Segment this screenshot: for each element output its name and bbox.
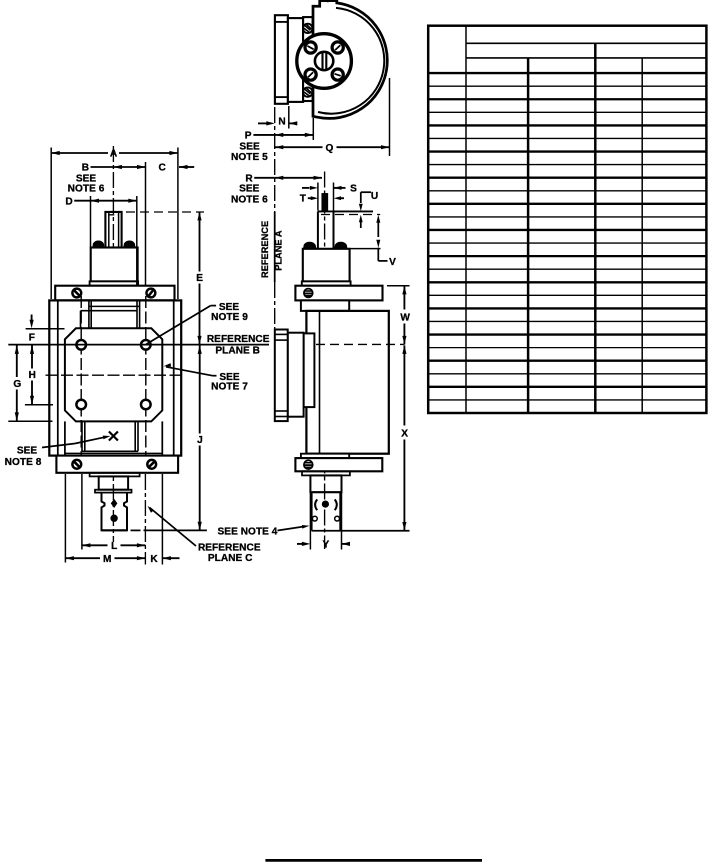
dimension S extension lines (317, 183, 319, 211)
side view: port stack plate 3 (304, 333, 315, 407)
svg-text:NOTE 6: NOTE 6 (68, 184, 105, 195)
front view: right seal bump (124, 241, 135, 247)
side view: bottom boss (310, 475, 341, 492)
svg-text:N: N (278, 117, 285, 128)
dimension G (15, 345, 19, 354)
top view: adapter strip (303, 17, 313, 101)
dimension G extension line (8, 420, 52, 422)
dimension V extension line (351, 248, 381, 250)
front view: bolt hole top-right (141, 340, 151, 350)
see note 9 leader (211, 305, 217, 307)
svg-text:REFERENCE: REFERENCE (207, 334, 270, 345)
svg-text:T: T (300, 194, 307, 205)
side view: lower mounting plate (295, 458, 382, 471)
svg-text:NOTE 5: NOTE 5 (231, 152, 268, 163)
front view: chamfered port face (65, 328, 162, 421)
svg-text:REFERENCE: REFERENCE (198, 542, 261, 553)
front view: pocket cavity line (81, 310, 138, 312)
svg-text:K: K (150, 554, 158, 565)
front view: bolt hole bottom-left (76, 400, 86, 410)
front view: lower cavity bottom (82, 450, 138, 452)
dimension M extension line (64, 474, 66, 563)
svg-text:A: A (110, 149, 118, 160)
side view: port stack plate 2 (288, 333, 304, 417)
side view: bottom step (302, 471, 350, 475)
front view: pocket cavity left wall (80, 311, 82, 329)
svg-text:Y: Y (323, 540, 330, 551)
front view: left seal bump (93, 241, 104, 247)
svg-text:F: F (29, 333, 35, 344)
side view: hidden line at stem top (321, 214, 380, 216)
svg-text:V: V (389, 257, 396, 268)
top view: shaft pin box at top (319, 0, 321, 6)
table column line 2 (thick) (527, 58, 529, 413)
svg-text:D: D (65, 196, 72, 207)
front view: solenoid tier block (91, 248, 138, 282)
front view: stem inner walls (108, 212, 110, 248)
front view: bottom boss (99, 476, 128, 489)
front view: connector pin dot (111, 515, 117, 521)
dimension F arrow (31, 315, 33, 322)
dimension L (82, 543, 91, 547)
side view: internal shaft line (319, 311, 321, 454)
front view: tier lip (90, 281, 139, 285)
svg-text:PLANE C: PLANE C (208, 553, 253, 564)
top view: flange bolt hole NE (332, 42, 343, 53)
svg-text:SEE: SEE (17, 446, 38, 457)
side view: tier lip (302, 281, 351, 285)
dimension E line (197, 212, 201, 221)
dimension H extension line (25, 404, 53, 406)
top view: actuator body half-circle outline (313, 1, 387, 119)
front view: lower plate left screw (72, 460, 81, 469)
svg-text:SEE NOTE 4: SEE NOTE 4 (218, 527, 278, 538)
side view: bottom sub step (301, 454, 349, 458)
table data row lines (428, 85, 706, 87)
svg-text:S: S (350, 184, 357, 195)
top view: flange bolt hole SE (332, 69, 343, 80)
dimension U bracket (361, 191, 371, 193)
svg-text:NOTE 6: NOTE 6 (231, 195, 268, 206)
see note 8 leader (42, 444, 75, 448)
dimension W (387, 285, 410, 287)
svg-text:B: B (82, 163, 89, 174)
svg-text:M: M (103, 554, 111, 565)
side view: connector center pin dot (322, 501, 328, 507)
front view: port face side lines to body bottom (64, 421, 66, 455)
side view: lower plate screw (edge) (304, 460, 313, 469)
dimension L extension line (81, 474, 83, 550)
top view: inner concentric arc (318, 8, 384, 114)
front view: port pattern centerline horizontal (46, 374, 182, 376)
svg-text:SEE: SEE (239, 184, 260, 195)
reference plane B line (8, 344, 269, 346)
dimension A line (51, 152, 108, 154)
dimension N extension line (288, 106, 290, 129)
dimension J line (198, 345, 202, 354)
table header row line 1 (466, 42, 706, 44)
dimension M (65, 556, 74, 560)
front view: solenoid stem (105, 212, 121, 248)
svg-text:E: E (196, 273, 203, 284)
front view: upper plate right screw (147, 289, 156, 298)
side view: connector clip left (315, 499, 317, 510)
reference plane A centerline (274, 107, 276, 212)
table column line 3 (thick) (594, 43, 596, 413)
side view: connector clip right (335, 499, 337, 510)
svg-text:J: J (197, 435, 203, 446)
svg-text:NOTE 8: NOTE 8 (5, 457, 42, 468)
front view: bolt hole bottom-right (141, 400, 151, 410)
reference plane C leader (150, 508, 197, 547)
side view: plate 1 cap lines (275, 333, 288, 335)
dimension D extension lines (90, 196, 92, 247)
reference plane C line (horizontal) (102, 529, 128, 531)
front view: vertical centerline (112, 146, 114, 542)
dimension B extension line (145, 162, 147, 285)
svg-text:NOTE 9: NOTE 9 (211, 312, 248, 323)
top view: upper strip screw (303, 24, 312, 33)
side view: vertical centerline (324, 172, 326, 550)
side view: upper plate screw (edge) (304, 289, 313, 298)
top view: flange hub circle (315, 52, 333, 70)
front view: lower mounting plate (56, 456, 178, 473)
dimension K extension line (161, 474, 163, 565)
svg-text:Q: Q (326, 143, 334, 154)
dimension H (30, 345, 34, 354)
see note 4 leader (278, 527, 305, 531)
side view: connector wall circle right (335, 516, 340, 521)
svg-text:X: X (401, 429, 408, 440)
top view: lower strip screw (303, 87, 312, 96)
side view: port stack plate 1 (275, 330, 288, 422)
svg-text:NOTE 7: NOTE 7 (211, 382, 248, 393)
svg-text:H: H (29, 370, 36, 381)
see note 7 leader (213, 375, 217, 377)
front view: bottom step (90, 473, 140, 477)
top view: left plate bottom cap line (275, 96, 288, 98)
front view: main body (49, 300, 181, 455)
side view: right seal bump (335, 243, 347, 249)
front view: body inner wall left (57, 300, 59, 455)
table column line 4 (641, 58, 643, 413)
dimension E extension dashes at stem top (126, 211, 204, 213)
svg-text:C: C (159, 163, 167, 174)
reference plane C extension at side view (312, 530, 410, 532)
dimension Y extension lines (309, 475, 311, 549)
side view: sub plate (301, 300, 349, 311)
front view: lower cavity shelf line (65, 452, 162, 454)
svg-text:U: U (371, 191, 378, 202)
side view: connector wall circle left (312, 516, 317, 521)
svg-text:W: W (400, 313, 410, 324)
dimension X (402, 345, 406, 354)
footer rule line (265, 859, 482, 862)
table header row line 2 (466, 57, 706, 59)
dimension Q extension line (389, 78, 391, 156)
top view: left mounting plate (275, 15, 288, 104)
front view: upper mounting plate (55, 286, 174, 301)
reference plane C dashed extension (vertical) (144, 474, 146, 565)
front view: lower cavity walls (81, 421, 83, 451)
svg-text:G: G (13, 379, 21, 390)
side view: main body (306, 311, 388, 454)
svg-text:REFERENCE: REFERENCE (260, 221, 270, 278)
svg-text:PLANE A: PLANE A (274, 230, 284, 271)
dimension P extension line (312, 118, 314, 140)
front view: electrical connector shell (102, 493, 128, 531)
table header bottom line (428, 72, 706, 74)
front view: connector collar (95, 490, 132, 493)
svg-text:SEE: SEE (239, 142, 260, 153)
front view: port hole centerline vertical right (145, 296, 147, 472)
front view: body inner wall right (173, 300, 175, 455)
side view: upper mounting plate (295, 286, 382, 301)
front view: pocket step line (89, 305, 140, 307)
front view: stem hidden line (108, 214, 119, 216)
front view: connector pin diamond (111, 499, 118, 508)
table outer border (428, 26, 706, 413)
front view: pocket lines below stem (88, 300, 90, 328)
side view: stem top edge with extension to U (318, 210, 373, 212)
side view: solenoid tier block (303, 249, 350, 282)
front view: X target mark (109, 432, 118, 441)
top view: flange bolt hole SW (305, 69, 316, 80)
dimension N (258, 122, 267, 124)
dimension Y (297, 543, 302, 545)
dimension V line (376, 215, 380, 223)
svg-text:L: L (111, 541, 117, 552)
side view: top pin (solid) (322, 194, 327, 211)
side view: stem sides (317, 211, 319, 248)
top view: left plate top cap line (275, 21, 288, 23)
side view: reference plane B dashed through body (316, 343, 404, 345)
dimension F extension line (26, 328, 65, 330)
front view: port hole centerline vertical left (80, 296, 82, 472)
dimension Q (275, 145, 284, 149)
svg-text:P: P (245, 131, 252, 142)
top view: second plate (288, 18, 303, 102)
top view: flange bolt hole NW (305, 42, 316, 53)
dimension A extension lines (50, 148, 52, 300)
dimension S (302, 187, 310, 189)
svg-text:PLANE B: PLANE B (215, 346, 260, 357)
front view: lower plate right screw (147, 460, 156, 469)
front view: bolt hole top-left (76, 340, 86, 350)
side view: left seal bump (304, 243, 316, 249)
front view: upper plate left screw (72, 289, 81, 298)
table column line 1 (465, 26, 467, 413)
top view: hub slot lines (321, 53, 323, 70)
side view: connector shell sides (311, 492, 313, 531)
top view: output flange circle (297, 34, 352, 89)
